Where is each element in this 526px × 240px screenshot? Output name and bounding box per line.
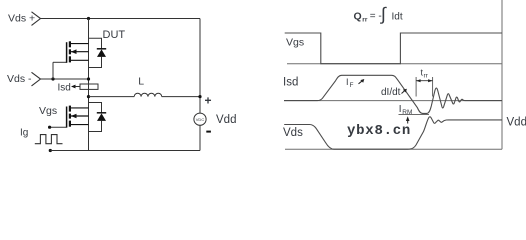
svg-text:rr: rr	[424, 73, 429, 80]
svg-text:I: I	[346, 77, 349, 87]
waveform Isd with reverse recovery	[284, 75, 502, 113]
transistor DUT mosfet	[53, 41, 89, 63]
symbol Ig double pulse	[35, 135, 63, 144]
node junction top (drain of DUT)	[87, 17, 90, 20]
label Isd with arrow	[58, 82, 81, 93]
node gate branch dot	[51, 77, 54, 80]
node Vdd junction dot	[198, 95, 201, 98]
axis Vgs zero line	[287, 63, 502, 65]
svg-text:Vdd: Vdd	[216, 114, 236, 126]
label dI/dt with arrow	[381, 87, 407, 98]
wire main vertical	[88, 19, 90, 151]
svg-text:ybx8.cn: ybx8.cn	[347, 123, 411, 139]
diode D1 body diode of DUT	[97, 49, 106, 57]
axis right vertical border	[501, 0, 503, 149]
svg-text:Ig: Ig	[20, 127, 28, 138]
label trr with ticks and arrows	[416, 68, 433, 97]
svg-text:Vds -: Vds -	[7, 73, 32, 85]
wire DUT diode top jog	[89, 38, 102, 49]
svg-text:= -: = -	[370, 11, 382, 22]
svg-text:∫: ∫	[379, 4, 387, 24]
wire bottom rail	[50, 150, 200, 152]
axis Vds zero line	[285, 148, 502, 150]
svg-text:dI/dt: dI/dt	[381, 87, 401, 98]
diode D2 body diode lower switch	[97, 113, 106, 121]
wire right vertical to source	[199, 19, 201, 114]
svg-text:L: L	[138, 75, 144, 87]
node Vgs source probe dot	[49, 149, 52, 152]
axis Isd zero line	[284, 100, 502, 102]
wire top rail	[41, 18, 201, 20]
node L junction dot	[87, 95, 90, 98]
svg-text:Vds +: Vds +	[8, 13, 35, 25]
inductor L	[89, 93, 201, 96]
svg-text:I: I	[399, 104, 402, 115]
svg-text:Vds: Vds	[283, 127, 303, 139]
node sense junction dot	[87, 77, 90, 80]
probe connector Vds+	[32, 12, 41, 26]
svg-text:Idt: Idt	[392, 12, 403, 23]
svg-text:Q: Q	[354, 10, 362, 22]
svg-text:Vdd: Vdd	[507, 117, 526, 129]
svg-text:Vgs: Vgs	[39, 105, 57, 117]
waveform Vds	[284, 117, 502, 149]
wire DUT diode bottom jog	[89, 57, 102, 68]
svg-text:DUT: DUT	[103, 29, 126, 41]
label minus	[206, 131, 211, 133]
wire lower diode bottom jog	[89, 121, 102, 132]
svg-text:Isd: Isd	[58, 82, 71, 93]
label IRM with level line and arrow	[399, 104, 430, 124]
node Vds+ label	[8, 13, 35, 25]
wire Vds- sense line	[41, 78, 89, 80]
svg-text:VDC: VDC	[196, 117, 205, 122]
resistor shunt box Isd	[80, 84, 98, 89]
svg-text:Vgs: Vgs	[286, 36, 304, 48]
node Vgs gate probe dot	[48, 126, 51, 129]
wire lower diode top jog	[89, 103, 102, 113]
label IF with arrow	[346, 77, 364, 89]
waveform Vgs gate pulse	[285, 33, 502, 64]
wire gate branch DUT	[52, 62, 54, 79]
svg-text:F: F	[350, 82, 354, 89]
svg-text:Isd: Isd	[283, 76, 298, 88]
transistor Q2 lower mosfet	[50, 106, 89, 128]
probe connector Vds-	[32, 72, 41, 86]
svg-text:rr: rr	[362, 16, 368, 23]
formula Qrr = -integral Idt	[354, 4, 403, 24]
source V1 VDC circle	[194, 113, 206, 150]
svg-text:+: +	[205, 94, 212, 108]
